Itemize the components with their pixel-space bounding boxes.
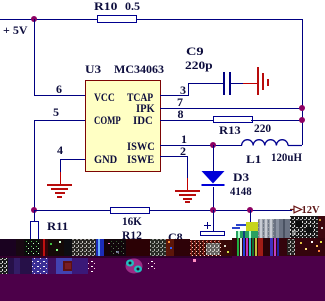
small stripe block under C8 label — [164, 239, 186, 241]
power label +5V — [3, 25, 28, 36]
inductor L1 coil — [236, 135, 306, 147]
wire: D3 anode vertical — [213, 145, 214, 171]
node: pin7 bus junction — [299, 105, 305, 111]
wire: to capacitor C9 — [188, 83, 224, 84]
pin label TCAP — [127, 92, 153, 103]
label R10 value 0.5 — [94, 1, 117, 12]
wire: pin 6 to VCC — [34, 95, 85, 96]
wire: bottom bus right of R12 to 12V arrow — [149, 210, 292, 211]
ground symbol below pin 4 — [47, 184, 72, 186]
label 220p — [185, 60, 213, 71]
label 220 — [254, 123, 271, 134]
node: D3 top junction — [210, 142, 216, 148]
label U3 MC34063 — [85, 64, 101, 75]
label C9 — [186, 46, 204, 57]
wire: pin 5 to COMP — [34, 120, 85, 121]
pin number 2 — [180, 146, 186, 157]
label 4148 — [230, 186, 252, 197]
pin label GND — [94, 154, 117, 165]
glitch row D: y 274-301 abs => 59-86 local — [0, 274, 325, 301]
wire: output cap stem — [250, 210, 251, 224]
label L1 — [246, 154, 261, 165]
label MC34063 — [114, 64, 164, 75]
glitch row B: y 239-258 abs => 24-43 local — [0, 239, 16, 258]
capacitor C8 top plate — [200, 231, 225, 236]
wire: pin 4 vertical to ground — [60, 159, 61, 173]
corrupted image glitch band — [0, 215, 325, 301]
wire: pin 2 stub — [160, 156, 188, 157]
wire: C9 to ground — [231, 83, 243, 84]
pin number 1 — [181, 134, 187, 145]
right-side upper noise (y 215-238 abs => 0-23 local) — [236, 224, 250, 226]
node: +5V junction — [31, 16, 37, 22]
pin number 6 — [56, 84, 62, 95]
wire: pin 8 to R13 — [160, 120, 214, 121]
wire: top rail right segment after R10 — [136, 19, 303, 20]
ground symbol (rotated) at C9 — [257, 67, 259, 95]
wire: left vertical pin5 down to bottom bus — [34, 120, 35, 210]
pin label COMP — [94, 115, 121, 126]
wire: pin 1 to L1 — [160, 145, 242, 146]
op-amp U3 MC34063 IC body — [85, 80, 161, 172]
label R11 — [47, 221, 68, 232]
node: C8 junction — [210, 207, 216, 213]
power port 12V arrow — [290, 203, 304, 215]
label R12 — [122, 230, 142, 241]
diode D3 — [199, 169, 227, 189]
wire: pin 4 to GND stub — [60, 159, 85, 160]
resistor R13 — [213, 116, 253, 123]
pin number 8 — [178, 109, 184, 120]
pin label IPK — [136, 103, 155, 114]
eye motif — [126, 259, 143, 274]
resistor R11 (vertical) — [34, 210, 35, 221]
wire: right bus vertical — [302, 19, 303, 145]
pin number 3 — [180, 85, 186, 96]
capacitor C9 plates — [223, 72, 225, 95]
wire: pin 3 riser — [188, 83, 189, 96]
node: bottom-left bus junction — [31, 207, 37, 213]
label C8 — [168, 232, 183, 243]
pin label ISWE — [127, 154, 154, 165]
label D3 — [233, 172, 249, 183]
label 120uH — [271, 152, 302, 163]
wire: D3 cathode vertical — [213, 187, 214, 210]
pin number 7 — [177, 97, 183, 108]
pin label IDC — [133, 115, 153, 126]
label R13 — [219, 125, 241, 136]
wire: pin 7 to right bus — [160, 108, 303, 109]
wire: bottom bus left of R12 — [34, 210, 111, 211]
wire: pin 2 vertical to ground — [187, 156, 188, 178]
resistor R12 16K — [110, 207, 150, 214]
wire: left vertical from +5V to pin6 — [34, 19, 35, 96]
pin number 5 — [53, 107, 59, 118]
pin label VCC — [94, 92, 115, 103]
plus sign of C8 — [204, 225, 211, 227]
node: pin8 bus junction — [299, 117, 305, 123]
ground symbol below pin 2 — [175, 190, 200, 192]
label 16K — [122, 216, 142, 227]
label 12V — [302, 205, 320, 216]
pin number 4 — [57, 145, 63, 156]
wire: pin 3 stub — [160, 95, 189, 96]
resistor R10 — [97, 15, 137, 23]
wire: +5V top rail left segment — [0, 19, 98, 20]
node: output cap junction — [247, 207, 253, 213]
capacitor C8 positive lead — [213, 210, 214, 231]
pin label ISWC — [127, 141, 155, 152]
glitch row C: y 258-274 abs => 43-59 local — [0, 258, 325, 274]
wire: R13 to right bus — [251, 120, 303, 121]
